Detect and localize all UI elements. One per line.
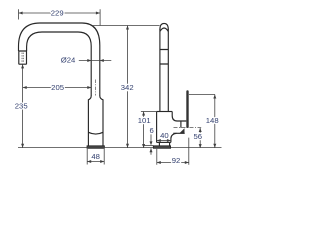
- svg-text:342: 342: [121, 83, 134, 92]
- deck line: [18, 147, 222, 149]
- side body right step to cartridge: [172, 112, 186, 122]
- front body shoulders and walls: [88, 96, 103, 146]
- front body seam arc: [88, 132, 103, 134]
- dimension 92: [157, 138, 189, 165]
- dimension 205: [23, 83, 92, 92]
- dimension 229: [19, 8, 101, 25]
- lever handle bar: [186, 90, 188, 128]
- svg-text:48: 48: [91, 152, 100, 161]
- spout arch inner (front view): [27, 32, 92, 96]
- svg-text:229: 229: [51, 8, 64, 17]
- svg-text:40: 40: [160, 131, 169, 140]
- dimension 40: [157, 131, 171, 142]
- svg-text:101: 101: [138, 116, 151, 125]
- side body left wall: [156, 112, 158, 143]
- dimension 56: [194, 128, 203, 148]
- side tube cap outer: [160, 23, 168, 29]
- svg-text:92: 92: [172, 156, 181, 165]
- svg-text:56: 56: [194, 132, 203, 141]
- cartridge bottom edge: [173, 132, 184, 134]
- front body centerline: [95, 80, 97, 96]
- dimension 6: [143, 126, 154, 155]
- svg-text:Ø24: Ø24: [61, 56, 76, 65]
- dimension 101: [138, 112, 157, 149]
- svg-text:148: 148: [206, 116, 219, 125]
- side tube ticks: [160, 50, 168, 65]
- dimension 48: [87, 149, 104, 165]
- spout tip box: [19, 51, 27, 64]
- side tube cap inner: [160, 28, 168, 32]
- side body top: [157, 111, 173, 113]
- side body lower right step: [171, 133, 177, 142]
- label Ø24 leader: [61, 56, 112, 65]
- cartridge front face: [180, 121, 182, 128]
- side base plate: [153, 146, 170, 149]
- svg-text:205: 205: [51, 83, 64, 92]
- dimension 148: [189, 95, 219, 148]
- spout arch outer (front view): [19, 23, 100, 96]
- svg-text:235: 235: [15, 102, 28, 111]
- dimension 342: [92, 26, 159, 148]
- lever pivot wedge: [179, 128, 184, 133]
- side tube walls: [160, 29, 168, 111]
- side base collar: [159, 142, 169, 145]
- dimension 235: [15, 64, 28, 147]
- front base plate: [87, 146, 104, 149]
- svg-text:6: 6: [149, 126, 153, 135]
- side body bottom: [157, 141, 171, 143]
- cartridge axis centerline: [174, 127, 202, 129]
- aerator hidden lines: [22, 53, 23, 63]
